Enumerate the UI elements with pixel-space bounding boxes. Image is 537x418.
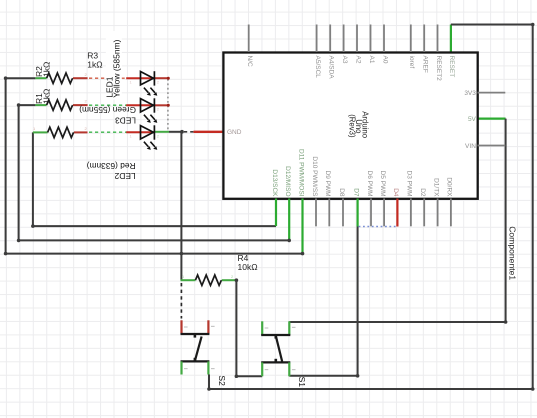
node: D11 wire corner [301, 252, 305, 256]
node: R3-left bend [4, 76, 8, 80]
svg-text:1kΩ: 1kΩ [41, 89, 51, 104]
S1 bottom tick [274, 359, 277, 362]
wire: horizontal to D11 (y=253.6) [6, 253, 303, 255]
LED pin marks [130, 80, 160, 139]
node: D12 wire corner [287, 239, 291, 243]
wire: vertical junction to R4 left [180, 132, 182, 280]
switch S1 [261, 321, 307, 387]
svg-text:D1/TX: D1/TX [432, 178, 439, 197]
svg-text:A3: A3 [341, 56, 348, 64]
svg-text:(Rev3): (Rev3) [347, 114, 356, 138]
pin A3 [343, 25, 345, 53]
S1 top contact bar [261, 334, 290, 336]
pin D3 PWM [410, 199, 412, 227]
S1 pin marks [265, 327, 296, 370]
node: left outer corner [4, 252, 8, 256]
S1 top-right leg [288, 321, 290, 335]
S2 bottom-right leg (green) [207, 361, 209, 374]
S2 top-right leg (red) [207, 320, 209, 334]
ratsnest green dashed row2 [89, 104, 127, 106]
svg-text:A4/SDA: A4/SDA [328, 56, 335, 80]
LED1 [126, 77, 154, 79]
resistor R1 (second row) [35, 104, 46, 106]
arduino U1 box [223, 53, 477, 199]
resistor row3 [33, 131, 48, 133]
node: 5V net corner [504, 320, 508, 324]
pin D5 PWM [383, 199, 385, 227]
pin RESET2 [437, 25, 439, 53]
svg-text:VIN: VIN [465, 143, 476, 150]
svg-text:ioref: ioref [408, 56, 415, 69]
LED2 (middle row) [126, 104, 154, 106]
pin N/C [248, 25, 250, 53]
ratsnest blue dotted D7-D4 [359, 226, 397, 228]
pin A2 [356, 25, 358, 53]
S1 bottom contact bar [261, 361, 290, 363]
LED cathode wire end dots [167, 77, 170, 80]
node: R4 right corner [235, 278, 239, 282]
svg-text:5V: 5V [468, 116, 477, 123]
pin D2 [423, 199, 425, 227]
svg-text:Yellow (585nm): Yellow (585nm) [112, 39, 122, 97]
S2 bottom-left leg (green) [180, 361, 182, 374]
LED1 label background [106, 31, 122, 100]
pin D13/SCK [275, 199, 277, 227]
svg-text:Red (633nm): Red (633nm) [87, 161, 136, 171]
node: RESET net top-right corner [531, 23, 535, 27]
S1 bottom-left leg [261, 362, 263, 376]
S2 lever [195, 337, 202, 362]
svg-text:1kΩ: 1kΩ [87, 59, 102, 69]
svg-text:A0: A0 [381, 56, 388, 64]
S2 top tick [194, 334, 197, 338]
S2 top-left leg (red) [180, 320, 182, 334]
node: D7 wire corner [356, 374, 360, 378]
pin VIN [478, 145, 506, 147]
svg-text:LED3: LED3 [115, 116, 136, 126]
node: left middle corner [17, 239, 21, 243]
pin A0 [383, 25, 385, 53]
svg-text:1kΩ: 1kΩ [41, 62, 51, 77]
ratsnest red dashed row1 [89, 77, 105, 79]
wire: net R3-left vertical at left edge [5, 78, 7, 253]
pin ioref [410, 25, 412, 53]
node: junction D11 wire / R4 branch [180, 252, 184, 256]
svg-text:A1: A1 [368, 56, 375, 64]
pin D10 PWM/SS [315, 199, 317, 227]
pin D12/MISO [288, 199, 290, 241]
svg-text:AREF: AREF [422, 56, 429, 73]
wire: red wire to GND pin [194, 131, 225, 133]
svg-text:10kΩ: 10kΩ [238, 262, 258, 272]
S1 bottom-right leg [288, 362, 290, 376]
svg-text:D7: D7 [352, 188, 359, 197]
svg-text:Green (555nm): Green (555nm) [79, 105, 136, 115]
svg-text:D9 PWM: D9 PWM [324, 171, 331, 197]
S1 top-left leg [261, 321, 263, 335]
node: R1-left bend [17, 103, 21, 107]
S1 top tick [274, 335, 277, 339]
wire: RESET net [450, 25, 452, 53]
pin A4/SDA [329, 25, 331, 53]
S2 pin marks [184, 326, 215, 369]
svg-text:D0/RX: D0/RX [446, 177, 453, 197]
wire: R4 right down to y376 [236, 280, 262, 376]
pin D9 PWM [328, 199, 330, 227]
svg-text:A2: A2 [354, 56, 361, 64]
svg-text:N/C: N/C [246, 56, 253, 68]
svg-text:3V3: 3V3 [464, 90, 476, 97]
svg-text:D10 PWM/SS: D10 PWM/SS [311, 156, 318, 197]
node: S2 bottom-right corner [207, 387, 211, 391]
wire: net R2-left vertical [32, 132, 34, 226]
svg-text:D13/SCK: D13/SCK [271, 169, 278, 197]
svg-text:D5 PWM: D5 PWM [379, 171, 386, 197]
svg-text:D11 PWM/MOSI: D11 PWM/MOSI [297, 149, 304, 197]
node: GND net junction at LED3 cathode [180, 130, 184, 134]
svg-text:Componente1: Componente1 [507, 226, 517, 280]
pin D7 green wire [357, 199, 359, 227]
wire: R1 left stub [19, 104, 36, 106]
pin D1/TX [437, 199, 439, 227]
svg-text:D3 PWM: D3 PWM [406, 171, 413, 197]
svg-text:D4: D4 [392, 188, 399, 197]
resistor R3 (top row) [35, 77, 46, 79]
svg-text:GND: GND [227, 129, 242, 136]
wire: S1 bottom-right to D7 vertical [289, 227, 357, 376]
pin A5/SCL [316, 25, 318, 53]
wire: horizontal to D12 (y=240.4) [19, 239, 290, 241]
svg-text:S2: S2 [217, 375, 227, 386]
node: left inner corner [31, 224, 35, 228]
resistor pin marks [33, 72, 88, 131]
ratsnest: black dashed R4-left to S2 [180, 283, 182, 319]
wire: net R1-left vertical [18, 105, 20, 240]
node: RESET net bottom-right corner [531, 387, 535, 391]
pin D4 red wire [396, 199, 398, 227]
pin D0/RX [450, 199, 452, 227]
svg-text:D8: D8 [338, 188, 345, 197]
ratsnest gray dotted LED cathodes [167, 79, 169, 131]
pin D8 [342, 199, 344, 227]
S2 bottom contact bar [181, 360, 210, 362]
wire: R3 left stub [6, 77, 36, 79]
svg-text:S1: S1 [297, 377, 307, 388]
switch S2 [181, 320, 227, 386]
svg-text:A5/SCL: A5/SCL [314, 56, 321, 79]
S1 lever [276, 336, 282, 361]
wire: LED3 cathode to junction [169, 131, 182, 133]
arduino label [347, 111, 369, 139]
svg-text:RESET2: RESET2 [435, 56, 442, 82]
resistor R4 [181, 279, 196, 281]
svg-text:LED2: LED2 [114, 171, 135, 181]
S2 bottom tick [194, 358, 197, 361]
svg-text:D12/MISO: D12/MISO [284, 166, 291, 196]
pin A1 [370, 25, 372, 53]
pin AREF [423, 25, 425, 53]
wire: 5V net [478, 117, 506, 119]
ratsnest green dashed row3 [89, 131, 127, 133]
pin D11 PWM/MOSI [301, 199, 303, 254]
node: corner to S1 bottom-left [235, 374, 239, 378]
pin D6 PWM [370, 199, 372, 227]
S2 top contact bar [181, 333, 210, 335]
wire: horizontal to D13 (y=226.1) [33, 225, 276, 227]
pin 3V3 [478, 92, 506, 94]
svg-text:D6 PWM: D6 PWM [366, 171, 373, 197]
ratsnest: black dashes GND [184, 131, 194, 133]
svg-text:RESET: RESET [448, 56, 455, 78]
svg-text:D2: D2 [419, 188, 426, 197]
LED3 (bottom row) [126, 131, 154, 133]
